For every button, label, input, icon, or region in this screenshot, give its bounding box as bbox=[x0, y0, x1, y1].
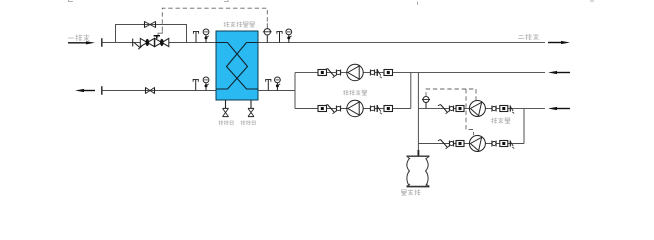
thermometer T4 HX secondary outlet bbox=[266, 79, 271, 90]
flexible joint FJ3 bbox=[336, 106, 340, 112]
butterfly valve B3b bbox=[500, 106, 508, 112]
drain valve D2 bbox=[248, 100, 254, 117]
make-up pump PU3 bbox=[469, 101, 485, 117]
butterfly valve V2 on supply bbox=[140, 38, 154, 46]
flexible joint FJ6 bbox=[492, 106, 496, 112]
label 排污口 left bbox=[219, 120, 234, 124]
butterfly valve B4a bbox=[456, 141, 464, 147]
pressure gauge P2 secondary supply bbox=[286, 29, 292, 43]
label 定压罐 bbox=[401, 190, 420, 196]
wire: HX secondary outlet pipe bbox=[258, 90, 295, 92]
circulation pump PU1 bbox=[347, 64, 363, 80]
wire: primary supply pipe left bbox=[102, 42, 216, 44]
thermometer T3 primary return bbox=[193, 79, 198, 90]
temp sensor TE on secondary supply bbox=[263, 29, 272, 43]
flange primary supply bbox=[101, 38, 103, 47]
thermometer T1 primary supply bbox=[193, 31, 198, 42]
control signal dashed lines to make-up pumps bbox=[426, 89, 476, 135]
flexible joint FJ8 bbox=[492, 141, 496, 147]
check valve CK4 bbox=[510, 141, 514, 149]
flexible joint FJ5 bbox=[449, 106, 453, 112]
expansion tank 定压罐 bbox=[407, 150, 430, 187]
pressure gauge P1 primary supply bbox=[203, 29, 209, 43]
circulation pump PU2 bbox=[347, 100, 363, 116]
wire: circulation branch 1 / secondary return line bbox=[295, 72, 545, 74]
label 一次水 supply bbox=[68, 35, 95, 45]
butterfly valve B1b bbox=[384, 70, 393, 76]
control signal dashed line from valve V3 to temp sensor TE bbox=[162, 8, 267, 31]
butterfly valve B3a bbox=[456, 106, 464, 112]
strainer S1 bbox=[325, 69, 337, 78]
wire: bypass loop bbox=[116, 25, 187, 43]
label 循环水泵 bbox=[343, 90, 367, 95]
flexible joint FJ7 bbox=[449, 141, 453, 147]
label 补水泵 bbox=[491, 118, 510, 124]
make-up pump branch 2 components bbox=[438, 136, 514, 152]
motorized control valve V3 on supply bbox=[154, 31, 169, 46]
wire: circulation branch 2 bbox=[295, 108, 411, 110]
check valve CK3 bbox=[510, 106, 514, 114]
butterfly valve B2b bbox=[384, 106, 393, 112]
valve V1 bypass gate valve bbox=[145, 21, 156, 28]
gate valve V4 primary return bbox=[146, 87, 155, 94]
flange primary return bbox=[101, 86, 103, 95]
crop tick marks bbox=[68, 0, 594, 5]
strainer S4 bbox=[438, 140, 450, 149]
wire: make-up right junction bbox=[523, 109, 525, 144]
butterfly valve B1a bbox=[318, 70, 327, 76]
drain valve D1 bbox=[223, 100, 229, 117]
wire: secondary supply pipe right bbox=[258, 42, 545, 44]
check valve CK2 bbox=[377, 105, 382, 114]
circulation pump branch 2 components bbox=[318, 100, 393, 116]
strainer F1 on supply bbox=[133, 39, 142, 50]
wire: make-up branch 1 bbox=[418, 108, 545, 110]
pressure sensor PS make-up control bbox=[422, 97, 430, 109]
label 排污口 right bbox=[241, 120, 256, 124]
wire: circulation left header bbox=[294, 73, 296, 109]
plate heat exchanger HX bbox=[216, 31, 258, 100]
arrow make-up water in bbox=[548, 107, 570, 110]
flexible joint FJ4 bbox=[370, 106, 374, 112]
flexible joint FJ1 bbox=[336, 70, 340, 76]
pressure gauge P4 HX secondary outlet bbox=[275, 77, 281, 91]
wire: primary return pipe bbox=[102, 90, 216, 92]
check valve CK1 bbox=[377, 69, 382, 78]
strainer S2 bbox=[325, 105, 337, 114]
label 二次水 supply bbox=[518, 34, 570, 44]
arrow secondary return in bbox=[548, 71, 570, 74]
strainer S3 bbox=[438, 105, 450, 114]
arrow primary return out bbox=[75, 89, 95, 92]
make-up pump PU4 bbox=[469, 136, 485, 152]
wire: make-up branch 2 bbox=[418, 143, 524, 145]
thermometer T2 secondary supply bbox=[277, 31, 282, 42]
butterfly valve B4b bbox=[500, 141, 508, 147]
make-up pump branch 1 components bbox=[438, 101, 514, 117]
butterfly valve B2a bbox=[318, 106, 327, 112]
circulation pump branch 1 components bbox=[318, 64, 393, 80]
flexible joint FJ2 bbox=[370, 70, 374, 76]
pressure gauge P3 primary return bbox=[203, 77, 209, 91]
wire: circulation right header bbox=[410, 73, 412, 109]
wire: make-up header to tank bbox=[417, 73, 419, 157]
label 板式换热器 bbox=[224, 22, 255, 27]
